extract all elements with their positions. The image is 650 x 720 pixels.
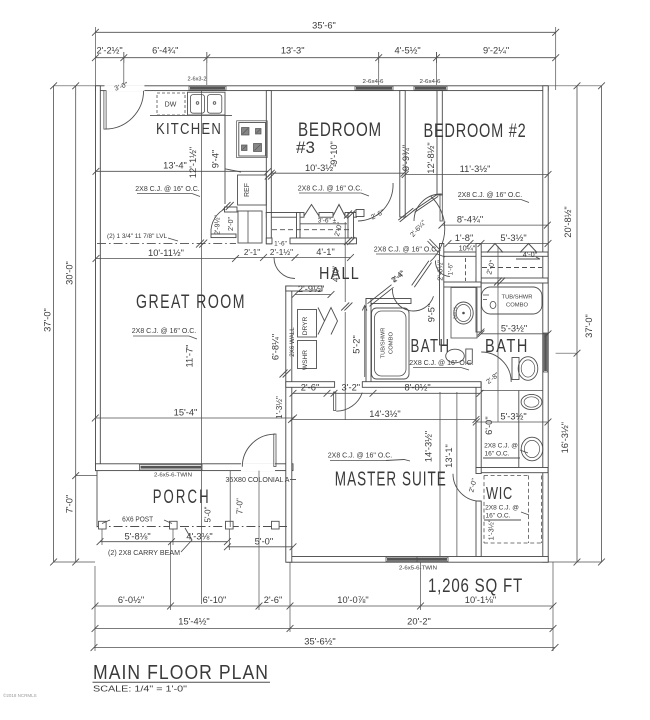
svg-text:TUB/SHWR: TUB/SHWR [381,328,387,359]
svg-text:5'-8⅛": 5'-8⅛" [124,531,150,541]
svg-text:(2) 1 3/4" 11 7/8" LVL: (2) 1 3/4" 11 7/8" LVL [107,233,168,240]
svg-text:WIC: WIC [486,483,513,503]
svg-text:9'-5": 9'-5" [427,304,437,323]
svg-text:15'-4": 15'-4" [174,408,198,418]
svg-text:35'-6½": 35'-6½" [304,637,335,647]
svg-text:1'-3½": 1'-3½" [275,396,284,419]
svg-text:2'-9½": 2'-9½" [214,215,222,235]
svg-text:7'-0": 7'-0" [65,495,75,514]
svg-text:6X6 POST: 6X6 POST [122,516,154,523]
svg-text:REF: REF [244,183,251,197]
svg-text:#3: #3 [296,138,315,157]
svg-text:9'-10": 9'-10" [329,141,339,165]
svg-text:GREAT ROOM: GREAT ROOM [136,292,246,313]
svg-text:10'-0⅞": 10'-0⅞" [337,595,368,605]
svg-text:2X8 C.J. @ 16" O.C.: 2X8 C.J. @ 16" O.C. [409,360,474,367]
svg-text:6'-10": 6'-10" [203,595,227,605]
svg-text:BATH: BATH [485,336,529,356]
svg-text:TUB/SHWR: TUB/SHWR [502,295,533,301]
svg-text:6'-0½": 6'-0½" [118,595,144,605]
svg-text:14'-3½": 14'-3½" [369,409,400,419]
svg-text:PORCH: PORCH [153,487,211,508]
svg-text:2X8 C.J. @: 2X8 C.J. @ [484,443,518,450]
svg-text:5'-3½": 5'-3½" [500,412,526,422]
svg-text:9'-2¼": 9'-2¼" [483,46,509,56]
svg-text:9'-9¾": 9'-9¾" [401,145,411,171]
svg-text:6'-8¼": 6'-8¼" [271,334,281,360]
svg-text:2'-2½": 2'-2½" [96,46,122,56]
svg-text:(2) 2X8 CARRY BEAM: (2) 2X8 CARRY BEAM [108,550,180,557]
svg-text:3'-2": 3'-2" [342,383,361,393]
svg-text:8'-4¾": 8'-4¾" [457,215,483,225]
svg-text:20'-2": 20'-2" [407,616,431,626]
svg-text:37'-0": 37'-0" [584,314,594,338]
svg-text:2X8 C.J. @ 16" O.C.: 2X8 C.J. @ 16" O.C. [374,247,439,254]
svg-text:30'-0": 30'-0" [65,261,75,285]
svg-text:5'-2": 5'-2" [352,335,362,354]
svg-text:2X8 C.J. @ 16" O.C.: 2X8 C.J. @ 16" O.C. [132,328,197,335]
svg-text:5'-3½": 5'-3½" [501,324,527,334]
svg-text:2X8 C.J. @ 16" O.C.: 2X8 C.J. @ 16" O.C. [135,186,200,193]
svg-text:2'-6": 2'-6" [264,595,283,605]
svg-text:35'-6": 35'-6" [312,21,336,31]
svg-text:2-6x5-6-TWIN: 2-6x5-6-TWIN [154,473,192,479]
svg-text:4'-5½": 4'-5½" [394,46,420,56]
svg-text:13'-4": 13'-4" [163,161,187,171]
svg-text:2-6x4-6: 2-6x4-6 [363,79,384,85]
svg-text:2X6 WALL: 2X6 WALL [289,327,296,357]
svg-text:©2018 NCRMLS: ©2018 NCRMLS [3,692,37,698]
svg-text:10¼": 10¼" [459,243,476,252]
svg-text:BEDROOM #2: BEDROOM #2 [424,121,527,142]
svg-text:2X8 C.J. @: 2X8 C.J. @ [485,505,519,512]
svg-text:2'-6½": 2'-6½" [435,260,444,281]
svg-text:SCALE: 1/4" = 1'-0": SCALE: 1/4" = 1'-0" [93,685,187,694]
svg-text:HALL: HALL [319,263,360,283]
svg-text:3'-6" ±: 3'-6" ± [318,218,337,225]
svg-text:2-6x5-6-TWIN: 2-6x5-6-TWIN [399,566,437,572]
svg-text:5'-0": 5'-0" [255,537,274,547]
svg-text:20'-8½": 20'-8½" [563,206,573,237]
svg-text:2'-1½": 2'-1½" [270,248,293,257]
svg-text:24x21: 24x21 [453,306,458,319]
svg-text:2X8 C.J. @ 16" O.C.: 2X8 C.J. @ 16" O.C. [328,453,393,460]
svg-text:10'-11½": 10'-11½" [148,248,184,258]
svg-text:COMBO: COMBO [389,332,395,354]
svg-text:1'-8": 1'-8" [455,233,474,243]
svg-text:14'-3½": 14'-3½" [424,431,434,462]
svg-text:12'-8½": 12'-8½" [426,142,436,173]
svg-text:9'-4": 9'-4" [211,150,221,169]
svg-text:7'-0": 7'-0" [236,498,245,514]
svg-text:13'-3": 13'-3" [281,46,305,56]
svg-text:5'-3½": 5'-3½" [500,233,526,243]
svg-text:WSHR: WSHR [302,350,309,370]
svg-text:13'-1": 13'-1" [444,444,454,468]
svg-text:36X80 COLONIAL A: 36X80 COLONIAL A [226,477,290,484]
svg-text:2X8 C.J. @ 16" O.C.: 2X8 C.J. @ 16" O.C. [298,186,363,193]
svg-text:4'-1": 4'-1" [316,247,335,257]
svg-text:2-6x3-2: 2-6x3-2 [188,77,207,83]
svg-text:2X8 C.J. @ 16" O.C.: 2X8 C.J. @ 16" O.C. [458,192,523,199]
svg-text:16" O.C.: 16" O.C. [485,513,510,520]
svg-text:11'-7": 11'-7" [185,345,195,368]
svg-text:8'-0½": 8'-0½" [404,383,430,393]
svg-text:2'-9½": 2'-9½" [298,284,324,294]
svg-text:1'-6": 1'-6" [274,240,287,247]
svg-text:DRYR: DRYR [302,316,309,335]
svg-text:2-6x4-6: 2-6x4-6 [420,79,441,85]
svg-text:COMBO: COMBO [506,303,528,309]
svg-text:1,206 SQ FT: 1,206 SQ FT [428,576,523,597]
svg-text:2'-1": 2'-1" [244,248,260,257]
svg-text:15'-4½": 15'-4½" [178,616,209,626]
svg-text:12'-1½": 12'-1½" [188,147,198,178]
svg-text:1'-3½": 1'-3½" [487,519,496,540]
svg-text:37'-0": 37'-0" [43,308,53,332]
svg-text:KITCHEN: KITCHEN [156,121,222,138]
svg-text:5'-0": 5'-0" [204,506,213,522]
svg-text:DW: DW [165,102,177,109]
svg-text:2'-0": 2'-0" [228,217,235,231]
svg-text:2'-6": 2'-6" [301,383,320,393]
svg-text:6'-4¾": 6'-4¾" [152,46,178,56]
svg-text:4'-0": 4'-0" [523,250,538,259]
svg-text:16" O.C.: 16" O.C. [484,451,509,458]
svg-text:6'-0": 6'-0" [484,416,494,435]
svg-text:11'-3½": 11'-3½" [460,164,491,174]
svg-text:1'-6": 1'-6" [448,263,455,276]
svg-text:BATH: BATH [411,336,451,356]
svg-text:16'-3½": 16'-3½" [560,422,570,453]
svg-text:MASTER SUITE: MASTER SUITE [335,468,447,490]
svg-text:MAIN FLOOR PLAN: MAIN FLOOR PLAN [93,662,269,684]
